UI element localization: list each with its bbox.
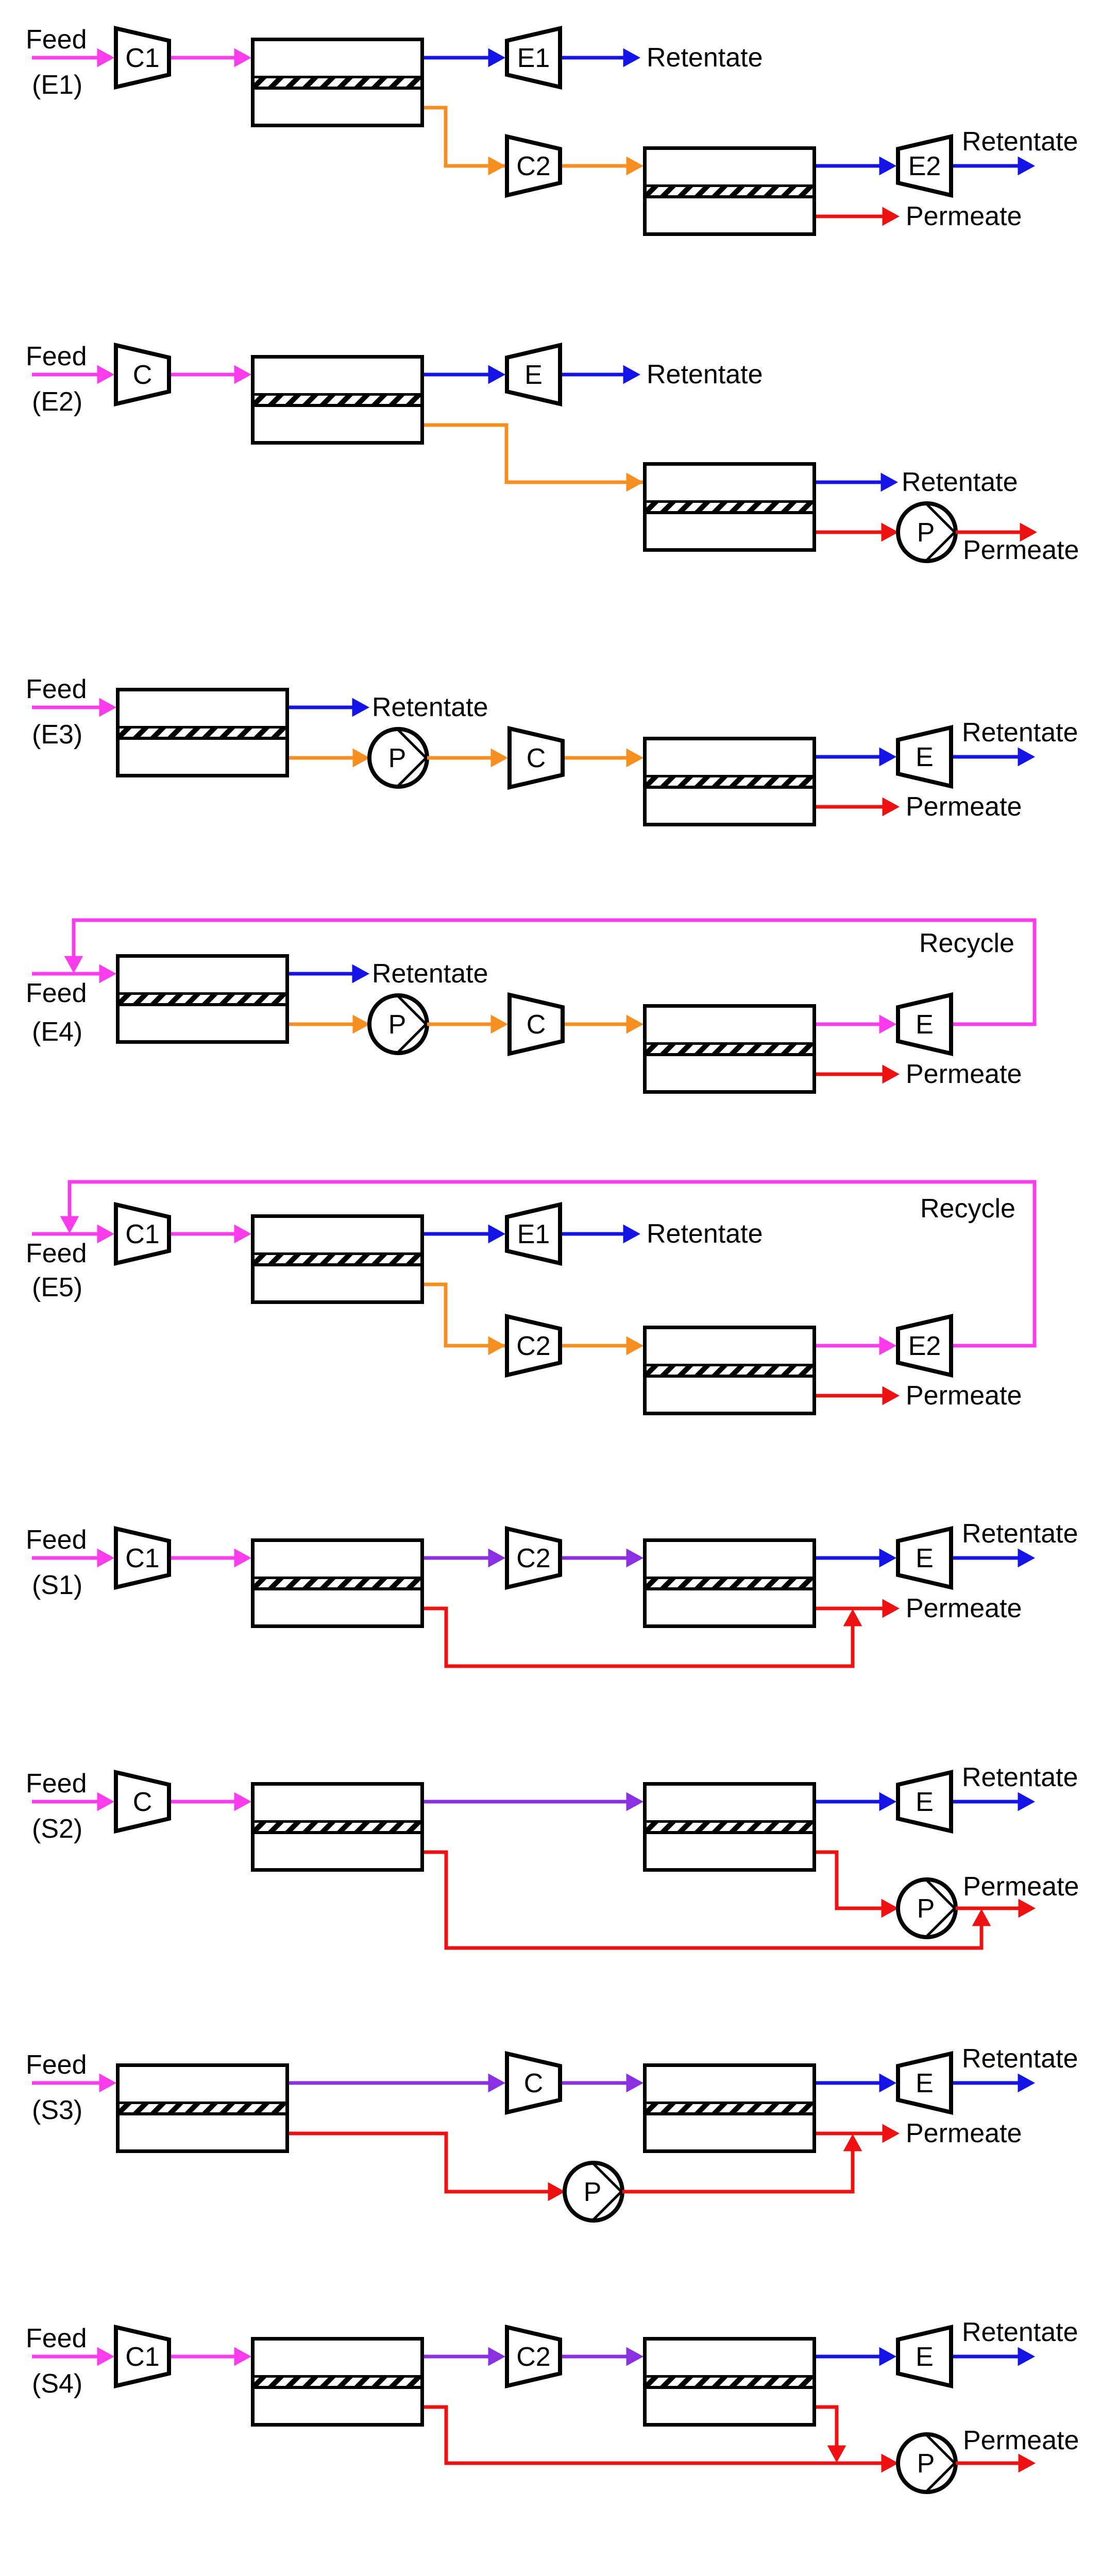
wire M1 retentate -> E1 (E1): [424, 49, 505, 67]
svg-text:(E5): (E5): [32, 1273, 82, 1302]
wire recycle E -> feed (E4): [65, 920, 1035, 1024]
wire M1 permeate -> P (E4): [289, 1015, 369, 1033]
svg-text:(E1): (E1): [32, 70, 82, 100]
svg-text:Retentate: Retentate: [962, 127, 1078, 157]
svg-text:Permeate: Permeate: [963, 1872, 1079, 1902]
compressor C2 (S1): [507, 1529, 560, 1587]
wire M1 retentate -> C2 (S1): [424, 1549, 505, 1567]
svg-text:Permeate: Permeate: [963, 535, 1079, 565]
label Permeate (E3): [906, 792, 1022, 822]
svg-text:C: C: [524, 2069, 544, 2098]
label Permeate (E2): [963, 535, 1079, 565]
svg-text:(S3): (S3): [32, 2095, 82, 2125]
wire M2 permeate out (E3): [816, 798, 899, 816]
wire E -> retentate out (S1): [953, 1549, 1035, 1567]
label (S2): [32, 1814, 82, 1844]
pump P (S4): [898, 2434, 956, 2492]
label Retentate stage2 (E1): [962, 127, 1078, 157]
svg-text:Feed: Feed: [26, 2324, 87, 2353]
label Retentate (S4): [962, 2317, 1078, 2347]
label Feed (S1): [26, 1525, 87, 1555]
expander E (E4): [898, 995, 951, 1054]
label Retentate stage1 (E3): [372, 692, 488, 722]
label (E1): [32, 70, 82, 100]
membrane module M1 (E5): [253, 1216, 422, 1302]
pump P (S3): [565, 2163, 622, 2221]
wire M2 retentate -> E (S3): [816, 2074, 896, 2092]
wire M1 permeate -> P (S3): [289, 2133, 565, 2201]
wire E -> retentate out (E3): [953, 748, 1035, 766]
wire E -> retentate out (S2): [953, 1793, 1035, 1811]
svg-text:Feed: Feed: [26, 25, 87, 55]
wire M2 retentate -> E (E4): [816, 1015, 896, 1033]
svg-text:Retentate: Retentate: [962, 718, 1078, 748]
expander E (S1): [898, 1529, 951, 1587]
label Retentate (S3): [962, 2044, 1078, 2074]
expander E2 (E5): [898, 1316, 951, 1375]
wire E2 -> retentate out (E1): [953, 157, 1035, 175]
wire E -> retentate out (E2): [562, 366, 640, 384]
svg-text:Feed: Feed: [26, 1239, 87, 1268]
label Retentate (S2): [962, 1762, 1078, 1792]
label Feed (E4): [26, 978, 87, 1008]
wire P -> junction (S3): [622, 2134, 862, 2192]
svg-text:E1: E1: [517, 43, 550, 73]
label (E2): [32, 387, 82, 417]
svg-text:(E4): (E4): [32, 1017, 82, 1047]
membrane module M1 (E3): [118, 690, 287, 776]
svg-text:Feed: Feed: [26, 1525, 87, 1555]
svg-text:C1: C1: [125, 2342, 159, 2372]
wire C2 -> module M2 (E1): [562, 157, 643, 175]
expander E (S4): [898, 2327, 951, 2386]
wire C1 -> module M1 (E1): [171, 49, 251, 67]
svg-text:P: P: [388, 743, 406, 773]
wire M2 retentate -> E (S1): [816, 1549, 896, 1567]
wire M1 permeate -> C2 (E5): [424, 1284, 505, 1355]
wire M1 retentate out (E4): [289, 965, 369, 983]
label (E4): [32, 1017, 82, 1047]
membrane module M2 (E4): [645, 1006, 815, 1092]
label Recycle (E4): [919, 928, 1014, 958]
wire M2 permeate -> junction (S4): [816, 2407, 846, 2462]
svg-text:C2: C2: [516, 2342, 550, 2372]
svg-text:E: E: [916, 1544, 934, 1573]
pump P (E4): [369, 995, 427, 1053]
label Retentate stage2 (E2): [902, 467, 1018, 497]
svg-text:P: P: [584, 2177, 602, 2207]
membrane module M2 (E5): [645, 1328, 815, 1414]
wire recycle E2 -> feed (E5): [61, 1182, 1035, 1346]
compressor C (E3): [510, 728, 563, 787]
svg-text:Permeate: Permeate: [906, 792, 1022, 822]
label Permeate (E5): [906, 1381, 1022, 1411]
wire feed -> C1 (S1): [32, 1549, 114, 1567]
wire C -> module M2 (E3): [565, 749, 643, 767]
svg-text:P: P: [917, 1894, 935, 1924]
wire M2 permeate out (E4): [816, 1065, 899, 1083]
svg-text:E: E: [916, 1787, 934, 1817]
svg-text:(S4): (S4): [32, 2369, 82, 2399]
svg-text:C: C: [527, 1010, 546, 1040]
label (S1): [32, 1570, 82, 1600]
wire E -> retentate out (S4): [953, 2348, 1035, 2366]
svg-text:Retentate: Retentate: [372, 959, 488, 989]
wire M2 retentate -> E (E3): [816, 748, 896, 766]
label Permeate (E1): [906, 201, 1022, 231]
pump P (E2): [898, 503, 956, 561]
wire C2 -> module M2 (S4): [562, 2348, 643, 2366]
expander E (E3): [898, 727, 951, 786]
wire P -> permeate out (S2): [956, 1900, 1035, 1918]
label Permeate (E4): [906, 1059, 1022, 1089]
wire M1 permeate -> C2 (E1): [424, 108, 505, 175]
compressor C (S3): [507, 2054, 560, 2112]
membrane module M2 (S4): [645, 2339, 815, 2425]
label Permeate (S1): [906, 1594, 1022, 1623]
label Retentate (S1): [962, 1519, 1078, 1549]
wire E1 -> retentate out (E5): [562, 1225, 640, 1243]
wire C1 -> module M1 (S1): [171, 1549, 251, 1567]
wire M1 retentate -> C (S3): [289, 2074, 505, 2092]
membrane module M2 (S2): [645, 1784, 815, 1870]
expander E1 (E5): [507, 1205, 560, 1263]
wire feed -> C1 (S4): [32, 2348, 114, 2366]
svg-text:Retentate: Retentate: [647, 1219, 763, 1249]
svg-text:P: P: [917, 2449, 935, 2479]
svg-text:C1: C1: [125, 1544, 159, 1573]
membrane module M2 (S3): [645, 2065, 815, 2151]
wire M1 retentate -> E1 (E5): [424, 1225, 505, 1243]
svg-text:Retentate: Retentate: [647, 360, 763, 389]
svg-text:Feed: Feed: [26, 342, 87, 371]
wire M2 retentate out (E2): [816, 473, 897, 492]
compressor C2 (E5): [507, 1316, 560, 1375]
label Feed (E1): [26, 25, 87, 55]
svg-text:Retentate: Retentate: [962, 1519, 1078, 1549]
membrane module M1 (E1): [253, 40, 422, 126]
membrane module M1 (S1): [253, 1540, 422, 1626]
membrane module M1 (S3): [118, 2065, 287, 2151]
wire M2 retentate -> E (S4): [816, 2348, 896, 2366]
membrane module M2 (E3): [645, 739, 815, 825]
wire feed -> module M1 (S3): [32, 2074, 116, 2092]
label (S4): [32, 2369, 82, 2399]
wire C1 -> module M1 (S4): [171, 2348, 251, 2366]
label (E5): [32, 1273, 82, 1302]
svg-text:Permeate: Permeate: [906, 1381, 1022, 1411]
svg-text:Feed: Feed: [26, 1769, 87, 1799]
expander E (E2): [507, 345, 560, 404]
svg-text:C2: C2: [516, 1544, 550, 1573]
wire M1 retentate -> C2 (S4): [424, 2348, 505, 2366]
svg-text:E: E: [524, 360, 543, 390]
expander E2 (E1): [898, 137, 951, 195]
svg-text:E: E: [916, 2342, 934, 2372]
label Permeate (S3): [906, 2119, 1022, 2148]
svg-text:Retentate: Retentate: [962, 2317, 1078, 2347]
svg-text:Retentate: Retentate: [902, 467, 1018, 497]
svg-text:P: P: [917, 518, 935, 548]
svg-text:E: E: [916, 742, 934, 772]
wire M1 permeate -> P (E3): [289, 749, 369, 767]
svg-text:Permeate: Permeate: [963, 2426, 1079, 2455]
svg-text:Feed: Feed: [26, 674, 87, 704]
svg-text:Permeate: Permeate: [906, 1594, 1022, 1623]
wire M2 permeate out (E1): [816, 208, 899, 226]
wire C1 -> module M1 (E5): [171, 1225, 251, 1243]
membrane module M2 (S1): [645, 1540, 815, 1626]
svg-text:C: C: [527, 743, 546, 773]
wire E1 -> retentate out (E1): [562, 49, 640, 67]
svg-text:C2: C2: [516, 1331, 550, 1361]
compressor C1 (E1): [116, 28, 169, 87]
label (E3): [32, 720, 82, 750]
svg-text:(S2): (S2): [32, 1814, 82, 1844]
label Feed (S2): [26, 1769, 87, 1799]
compressor C (S2): [116, 1772, 169, 1831]
membrane module M1 (S4): [253, 2339, 422, 2425]
wire M2 retentate -> E2 (E5): [816, 1337, 896, 1355]
label (S3): [32, 2095, 82, 2125]
wire P -> permeate out (S4): [956, 2454, 1035, 2472]
svg-text:(E3): (E3): [32, 720, 82, 750]
wire feed -> module M1 (E3): [32, 699, 116, 717]
compressor C1 (S4): [116, 2327, 169, 2386]
label Retentate stage1 (E5): [647, 1219, 763, 1249]
wire M2 permeate out (S3): [816, 2125, 899, 2143]
svg-text:Feed: Feed: [26, 2050, 87, 2080]
wire M2 permeate -> P (E2): [816, 523, 898, 541]
wire C2 -> module M2 (S1): [562, 1549, 643, 1567]
label Feed (S3): [26, 2050, 87, 2080]
wire P -> C (E4): [427, 1015, 507, 1033]
svg-text:E2: E2: [908, 151, 941, 181]
pump P (S2): [898, 1879, 956, 1937]
label Recycle (E5): [920, 1194, 1015, 1224]
wire M1 permeate -> M2 (E2): [424, 425, 643, 492]
compressor C (E2): [116, 345, 169, 404]
wire feed -> C (E2): [32, 366, 114, 384]
svg-text:Retentate: Retentate: [962, 2044, 1078, 2074]
label Feed (E3): [26, 674, 87, 704]
pump P (E3): [369, 729, 427, 787]
wire M2 permeate -> P (S2): [816, 1852, 898, 1918]
svg-text:Recycle: Recycle: [920, 1194, 1015, 1224]
wire M2 permeate out (E5): [816, 1387, 899, 1405]
compressor C1 (E5): [116, 1205, 169, 1263]
wire feed -> C1 (E5): [32, 1225, 114, 1243]
svg-text:Recycle: Recycle: [919, 928, 1014, 958]
wire E -> retentate out (S3): [953, 2074, 1035, 2092]
expander E (S2): [898, 1772, 951, 1831]
membrane module M1 (S2): [253, 1784, 422, 1870]
svg-text:C1: C1: [125, 43, 159, 73]
svg-text:Permeate: Permeate: [906, 1059, 1022, 1089]
membrane module M1 (E4): [118, 956, 287, 1042]
svg-text:C2: C2: [516, 151, 550, 181]
label Retentate stage2 (E3): [962, 718, 1078, 748]
wire M2 permeate out (S1): [816, 1600, 899, 1618]
wire feed -> C1 (E1): [32, 49, 114, 67]
svg-text:E: E: [916, 1010, 934, 1040]
svg-text:C: C: [133, 1787, 153, 1817]
svg-text:(E2): (E2): [32, 387, 82, 417]
expander E1 (E1): [507, 28, 560, 87]
label Retentate stage1 (E2): [647, 360, 763, 389]
wire M1 permeate -> junction (S1): [424, 1608, 862, 1666]
wire M2 retentate -> E (S2): [816, 1793, 896, 1811]
svg-text:Permeate: Permeate: [906, 2119, 1022, 2148]
svg-text:C: C: [133, 360, 153, 390]
expander E (S3): [898, 2054, 951, 2112]
compressor C2 (E1): [507, 137, 560, 195]
compressor C2 (S4): [507, 2327, 560, 2386]
svg-text:Permeate: Permeate: [906, 201, 1022, 231]
wire C -> module M1 (S2): [171, 1793, 251, 1811]
membrane module M2 (E1): [645, 148, 815, 234]
wire M1 permeate -> P (S4): [424, 2407, 898, 2472]
wire P -> C (E3): [427, 749, 507, 767]
svg-text:(S1): (S1): [32, 1570, 82, 1600]
wire M1 retentate out (E3): [289, 699, 369, 717]
svg-text:P: P: [388, 1010, 406, 1040]
wire M1 retentate -> M2 (S2): [424, 1793, 643, 1811]
wire C -> module M2 (E4): [565, 1015, 643, 1033]
label Retentate stage1 (E4): [372, 959, 488, 989]
wire C -> module M1 (E2): [171, 366, 251, 384]
wire C -> module M2 (S3): [562, 2074, 643, 2092]
wire P -> permeate out (E2): [956, 523, 1037, 541]
svg-text:C1: C1: [125, 1219, 159, 1249]
label Permeate (S2): [963, 1872, 1079, 1902]
label Feed (S4): [26, 2324, 87, 2353]
label Permeate (S4): [963, 2426, 1079, 2455]
membrane module M2 (E2): [645, 464, 815, 550]
wire M1 permeate -> junction (S2): [424, 1852, 991, 1948]
svg-text:Retentate: Retentate: [647, 43, 763, 73]
wire feed -> module M1 (E4): [32, 965, 116, 983]
compressor C (E4): [510, 995, 563, 1054]
svg-text:E1: E1: [517, 1219, 550, 1249]
label Feed (E5): [26, 1239, 87, 1268]
svg-text:E2: E2: [908, 1331, 941, 1361]
svg-text:E: E: [916, 2069, 934, 2098]
wire M2 retentate -> E2 (E1): [816, 157, 896, 175]
membrane module M1 (E2): [253, 357, 422, 443]
wire C2 -> module M2 (E5): [562, 1337, 643, 1355]
svg-text:Feed: Feed: [26, 978, 87, 1008]
wire feed -> C (S2): [32, 1793, 114, 1811]
svg-text:Retentate: Retentate: [962, 1762, 1078, 1792]
wire M1 retentate -> E (E2): [424, 366, 505, 384]
label Retentate stage1 (E1): [647, 43, 763, 73]
label Feed (E2): [26, 342, 87, 371]
svg-text:Retentate: Retentate: [372, 692, 488, 722]
compressor C1 (S1): [116, 1529, 169, 1587]
